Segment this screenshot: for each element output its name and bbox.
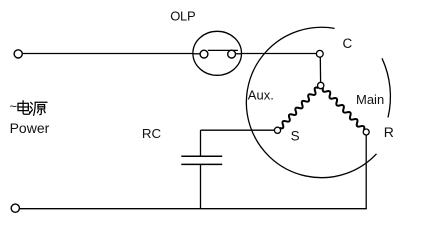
svg-text:Main: Main — [356, 92, 384, 107]
OLP left contact circle — [200, 50, 208, 58]
terminal S — [274, 127, 280, 133]
OLP right contact circle — [228, 50, 236, 58]
OLP contact bar — [208, 49, 238, 51]
svg-text:~: ~ — [10, 99, 18, 114]
terminal R — [363, 129, 369, 135]
terminal L2 (bottom-left power terminal) — [11, 204, 19, 212]
label 电 (CJK dian, drawn) — [18, 101, 30, 114]
wire: junction down to capacitor top plate — [200, 130, 202, 156]
auxiliary winding coil (node to S) — [280, 88, 319, 129]
wire: OLP to C terminal — [242, 53, 317, 55]
svg-text:RC: RC — [142, 126, 162, 141]
wire: S to capacitor junction — [201, 129, 275, 131]
wire: C down to winding node — [319, 57, 321, 82]
capacitor RC bottom plate — [181, 163, 222, 165]
wire: capacitor bottom plate down to bottom rail — [200, 164, 202, 208]
terminal L1 (top-left power terminal) — [14, 50, 22, 58]
svg-text:Power: Power — [10, 120, 50, 136]
motor stator circle (large arc, gaps at C and lower right) — [246, 27, 376, 177]
wire: bottom rail — [19, 208, 366, 210]
svg-text:Aux.: Aux. — [248, 88, 274, 103]
main winding coil (node to R) — [323, 88, 365, 130]
label 源 (CJK yuan, drawn) — [30, 102, 47, 115]
wire: L1 terminal to OLP — [22, 53, 193, 55]
overload protector OLP enclosure (ellipse) — [193, 31, 242, 75]
svg-text:C: C — [343, 36, 353, 51]
svg-text:OLP: OLP — [170, 9, 195, 24]
main winding arc (right parenthesis) — [382, 58, 390, 117]
OLP internal lead right — [236, 53, 242, 55]
OLP internal lead left — [193, 53, 200, 55]
wire: R terminal down to bottom rail — [365, 135, 367, 209]
node (winding common point) — [318, 82, 324, 88]
svg-text:R: R — [384, 124, 394, 140]
capacitor RC top plate — [181, 155, 222, 157]
svg-text:S: S — [291, 129, 300, 144]
terminal C — [316, 50, 323, 57]
